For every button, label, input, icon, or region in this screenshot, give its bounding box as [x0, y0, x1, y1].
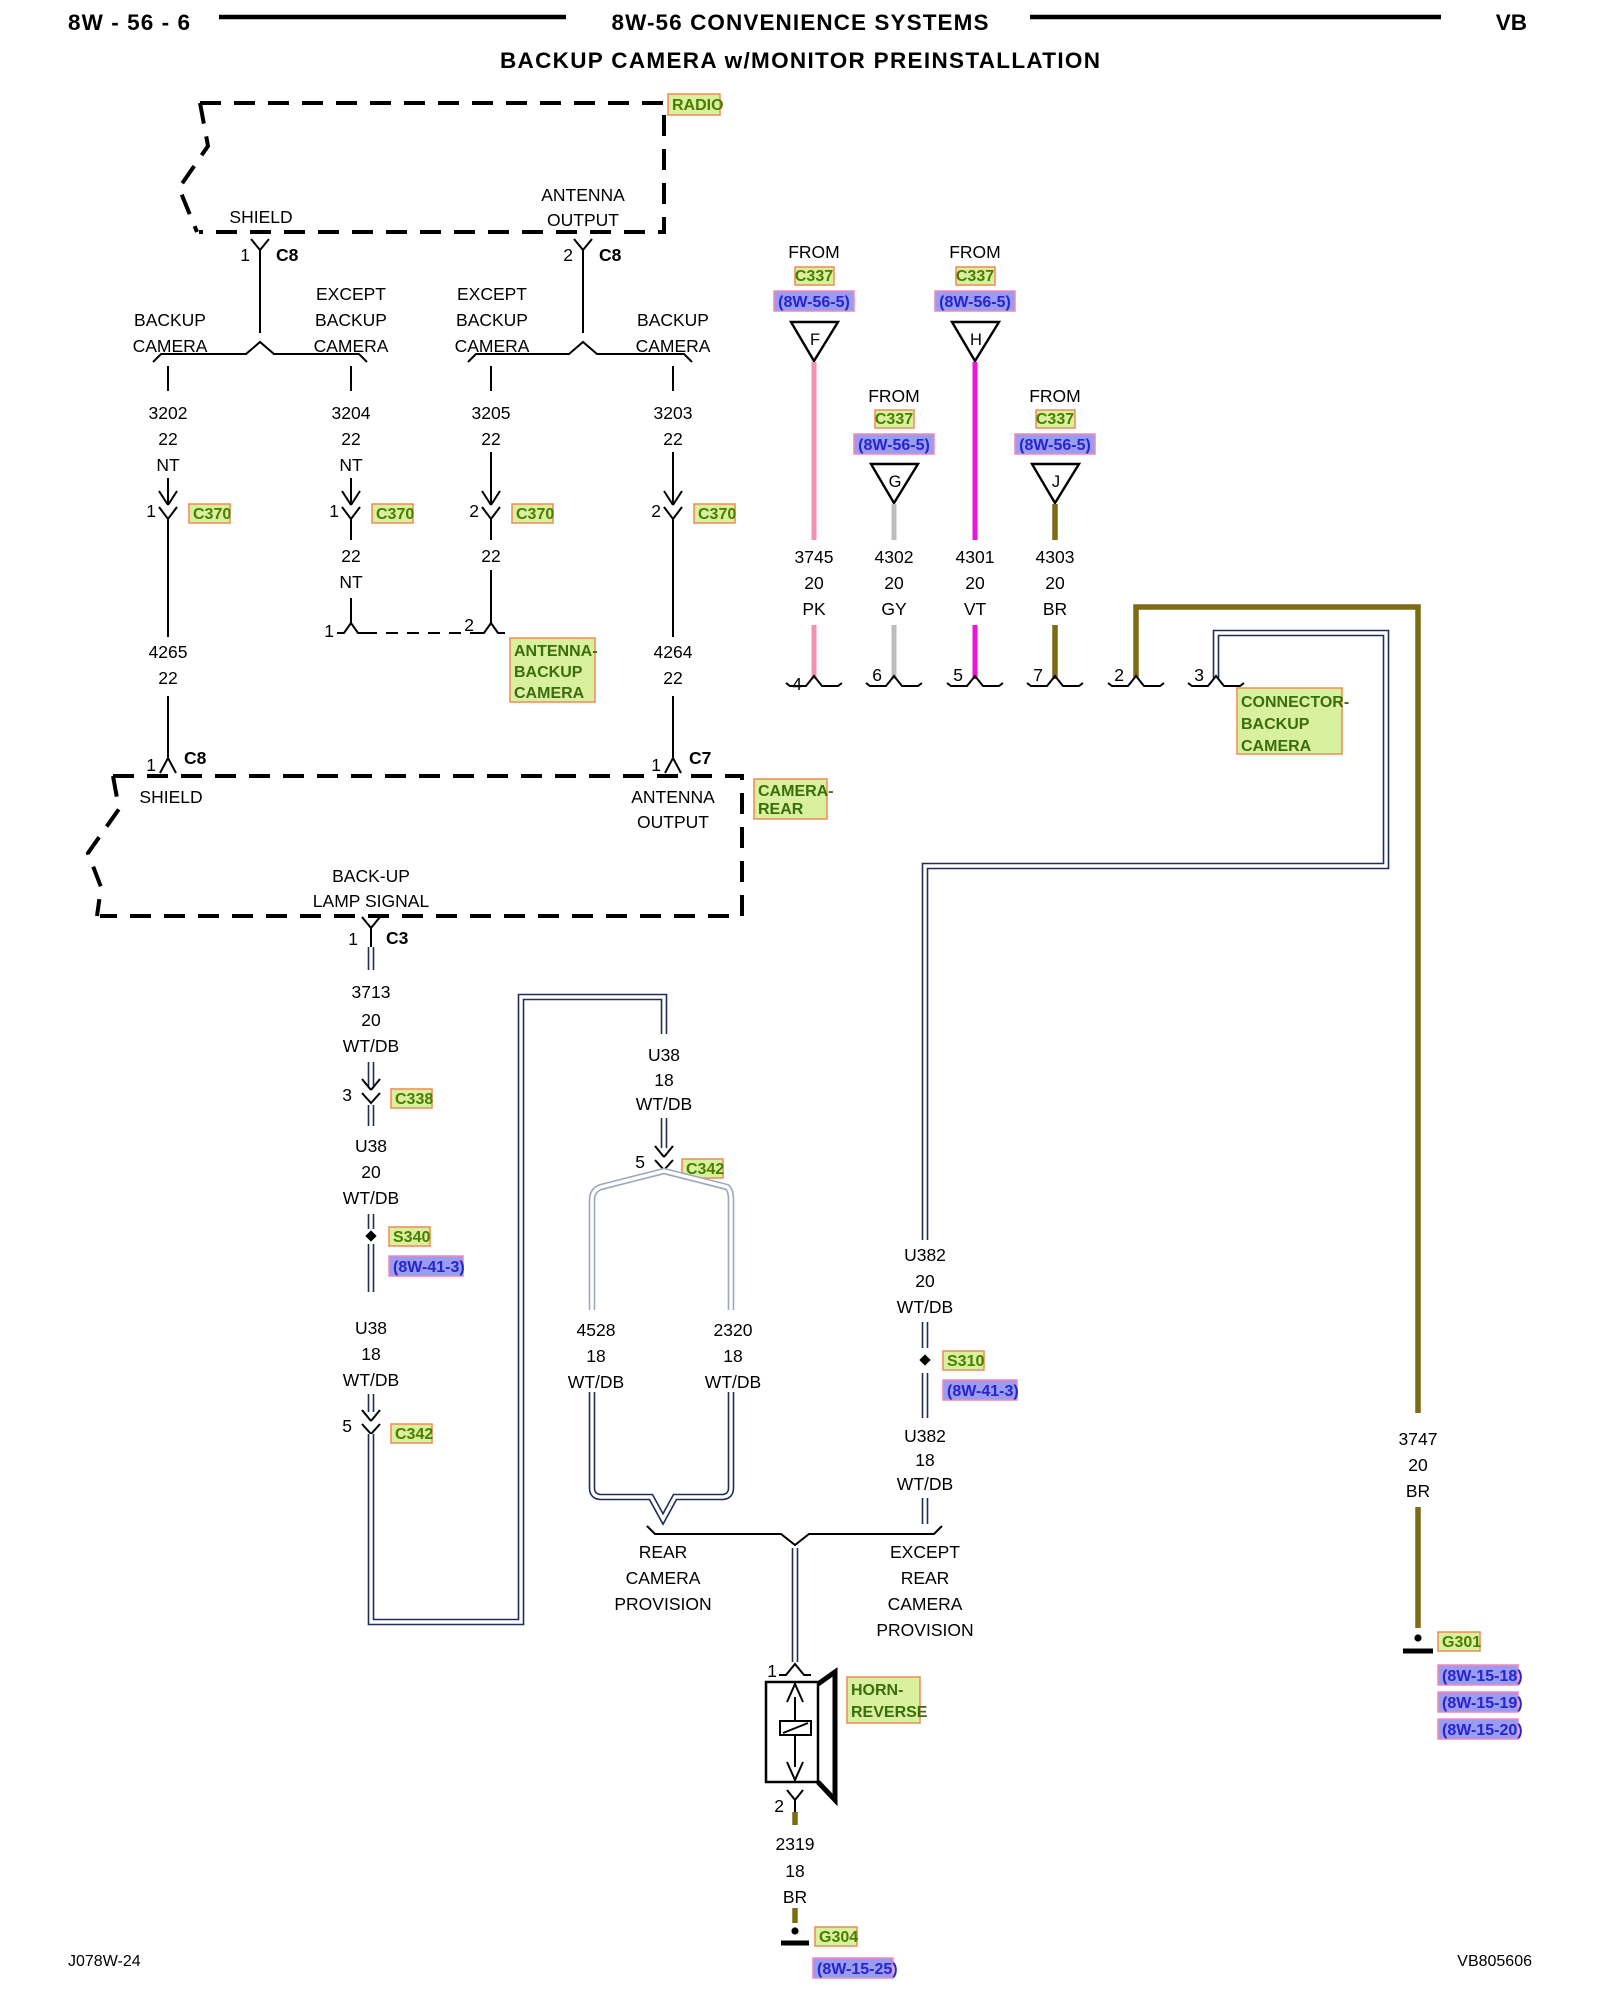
- svg-text:OUTPUT: OUTPUT: [547, 210, 619, 230]
- svg-text:C3: C3: [386, 928, 409, 948]
- wire col 3204 to bump: [350, 598, 352, 623]
- svg-text:G304: G304: [819, 1929, 858, 1946]
- svg-text:WT/DB: WT/DB: [705, 1372, 761, 1392]
- svg-text:FROM: FROM: [788, 242, 840, 262]
- twisted pair into C338: [368, 1062, 375, 1086]
- svg-text:3713: 3713: [352, 982, 391, 1002]
- svg-text:HORN-: HORN-: [851, 1682, 903, 1699]
- splice S310: [919, 1351, 984, 1370]
- svg-text:NT: NT: [156, 455, 180, 475]
- svg-text:BACKUP CAMERA w/MONITOR PREINS: BACKUP CAMERA w/MONITOR PREINSTALLATION: [500, 48, 1100, 73]
- pin 2 C8 radio: [563, 239, 621, 265]
- svg-text:2: 2: [563, 245, 573, 265]
- option brace 2: [468, 342, 692, 362]
- wire col 3202 to camera box: [167, 696, 169, 757]
- connector pin 7: [1027, 665, 1083, 686]
- svg-text:CAMERA-: CAMERA-: [758, 783, 834, 800]
- svg-text:VT: VT: [964, 599, 987, 619]
- svg-text:G301: G301: [1442, 1634, 1481, 1651]
- twisted pair below C338: [368, 1105, 375, 1126]
- svg-text:20: 20: [361, 1010, 381, 1030]
- svg-text:WT/DB: WT/DB: [343, 1036, 399, 1056]
- G301 ref (8W-15-18): [1438, 1665, 1523, 1685]
- svg-text:BR: BR: [783, 1887, 807, 1907]
- svg-text:GY: GY: [881, 599, 907, 619]
- svg-text:18: 18: [915, 1450, 934, 1470]
- pin 1 C7 camera: [651, 748, 711, 775]
- svg-text:2: 2: [651, 501, 661, 521]
- svg-text:4: 4: [792, 674, 802, 694]
- svg-text:OUTPUT: OUTPUT: [637, 812, 709, 832]
- pin 1 C3 camera: [348, 917, 408, 949]
- radio box (dashed): [179, 103, 664, 232]
- svg-text:4264: 4264: [654, 642, 693, 662]
- svg-text:1: 1: [348, 929, 358, 949]
- svg-text:20: 20: [884, 573, 904, 593]
- svg-text:(8W-41-3): (8W-41-3): [947, 1383, 1019, 1400]
- svg-text:REVERSE: REVERSE: [851, 1704, 928, 1721]
- svg-text:U38: U38: [648, 1045, 680, 1065]
- svg-text:CAMERA: CAMERA: [455, 336, 530, 356]
- svg-text:2320: 2320: [714, 1320, 753, 1340]
- pin 1 C8 radio: [240, 239, 298, 265]
- wire 4302 GY upper: [892, 504, 897, 540]
- wire 4303 BR lower: [1052, 625, 1058, 679]
- header rule left: [219, 15, 566, 20]
- wire 4301 VT upper: [973, 362, 978, 540]
- svg-text:C342: C342: [395, 1426, 433, 1443]
- wire 2319 BR lower: [792, 1908, 798, 1923]
- svg-text:C370: C370: [193, 506, 231, 523]
- svg-text:C337: C337: [1036, 411, 1074, 428]
- svg-text:4265: 4265: [149, 642, 188, 662]
- svg-text:1: 1: [146, 755, 156, 775]
- twisted pair U382 above S310: [922, 1322, 929, 1348]
- svg-text:WT/DB: WT/DB: [636, 1094, 692, 1114]
- triangle connector G: [871, 464, 918, 503]
- wire col 3203 below C370: [672, 518, 674, 637]
- svg-text:22: 22: [481, 429, 500, 449]
- horn pin 2: [774, 1790, 803, 1816]
- dashed jumper wire: [365, 632, 477, 634]
- svg-text:6: 6: [872, 665, 882, 685]
- svg-text:2319: 2319: [776, 1834, 815, 1854]
- svg-text:(8W-56-5): (8W-56-5): [1019, 437, 1091, 454]
- connector C342 pin5 (mid): [635, 1146, 724, 1178]
- twisted pair loop to mid column: [371, 997, 664, 1622]
- wire 3745 PK lower: [812, 625, 817, 679]
- svg-text:22: 22: [663, 429, 682, 449]
- wire stem pin1: [259, 262, 261, 333]
- svg-text:3: 3: [1194, 665, 1204, 685]
- svg-text:20: 20: [1408, 1455, 1428, 1475]
- svg-text:CAMERA: CAMERA: [636, 336, 711, 356]
- svg-text:2: 2: [774, 1796, 784, 1816]
- svg-text:22: 22: [158, 668, 177, 688]
- svg-text:22: 22: [341, 546, 360, 566]
- svg-text:20: 20: [915, 1271, 935, 1291]
- svg-text:CONNECTOR-: CONNECTOR-: [1241, 694, 1349, 711]
- svg-text:C8: C8: [276, 245, 299, 265]
- svg-text:(8W-15-20): (8W-15-20): [1442, 1722, 1523, 1739]
- radio label: [668, 94, 724, 115]
- svg-text:4302: 4302: [875, 547, 914, 567]
- svg-text:2: 2: [469, 501, 479, 521]
- svg-text:4303: 4303: [1036, 547, 1075, 567]
- svg-text:22: 22: [663, 668, 682, 688]
- svg-text:3205: 3205: [472, 403, 511, 423]
- twisted pair below S340: [368, 1244, 375, 1292]
- svg-text:CAMERA: CAMERA: [133, 336, 208, 356]
- svg-text:18: 18: [654, 1070, 673, 1090]
- svg-text:C338: C338: [395, 1091, 433, 1108]
- G301 ref (8W-15-19): [1438, 1692, 1523, 1712]
- bump pin 1 (antenna jumper): [337, 623, 365, 633]
- svg-text:U38: U38: [355, 1318, 387, 1338]
- svg-text:22: 22: [158, 429, 177, 449]
- svg-text:20: 20: [965, 573, 985, 593]
- twisted pair split tent: [592, 1171, 731, 1310]
- svg-text:22: 22: [481, 546, 500, 566]
- svg-text:VB805606: VB805606: [1457, 1953, 1532, 1970]
- svg-text:ANTENNA: ANTENNA: [541, 185, 625, 205]
- merge brace: [647, 1526, 942, 1545]
- svg-text:22: 22: [341, 429, 360, 449]
- connector pin 4: [786, 674, 842, 694]
- svg-text:ANTENNA: ANTENNA: [631, 787, 715, 807]
- svg-text:REAR: REAR: [901, 1568, 950, 1588]
- svg-text:U382: U382: [904, 1426, 946, 1446]
- label box HORN-REVERSE: [847, 1677, 928, 1723]
- svg-text:PROVISION: PROVISION: [876, 1620, 973, 1640]
- wire col 3204 below C370: [350, 518, 352, 540]
- svg-text:20: 20: [1045, 573, 1065, 593]
- wire tick 3204: [350, 366, 352, 391]
- wire 4302 GY lower: [892, 625, 897, 679]
- svg-text:EXCEPT: EXCEPT: [457, 284, 527, 304]
- wire tick 3205: [490, 366, 492, 391]
- connector C370 pin1 (col 3202): [146, 478, 231, 523]
- svg-text:C337: C337: [795, 268, 833, 285]
- wire tick 3202: [167, 366, 169, 391]
- svg-text:CAMERA: CAMERA: [626, 1568, 701, 1588]
- svg-text:C337: C337: [956, 268, 994, 285]
- wire col 3203 to camera box: [672, 696, 674, 757]
- svg-text:BACKUP: BACKUP: [1241, 716, 1310, 733]
- label box ANTENNA-BACKUP CAMERA: [510, 638, 598, 702]
- svg-text:NT: NT: [339, 572, 363, 592]
- svg-text:3747: 3747: [1399, 1429, 1438, 1449]
- svg-text:18: 18: [586, 1346, 605, 1366]
- svg-text:RADIO: RADIO: [672, 97, 724, 114]
- svg-text:1: 1: [329, 501, 339, 521]
- svg-text:7: 7: [1033, 665, 1043, 685]
- svg-text:20: 20: [804, 573, 824, 593]
- svg-text:1: 1: [767, 1661, 777, 1681]
- svg-text:S310: S310: [947, 1353, 984, 1370]
- S310 ref (8W-41-3): [943, 1380, 1019, 1400]
- svg-text:REAR: REAR: [639, 1542, 688, 1562]
- wire col 3205 to bump: [490, 570, 492, 623]
- feed J labels FROM C337 (8W-56-5): [1015, 386, 1095, 454]
- triangle connector J: [1032, 464, 1079, 503]
- svg-text:SHIELD: SHIELD: [229, 207, 292, 227]
- svg-text:BACK-UP: BACK-UP: [332, 866, 410, 886]
- svg-text:18: 18: [723, 1346, 742, 1366]
- svg-text:C370: C370: [516, 506, 554, 523]
- svg-text:3: 3: [342, 1085, 352, 1105]
- horn-reverse body: [766, 1672, 835, 1800]
- svg-text:1: 1: [146, 501, 156, 521]
- svg-text:BR: BR: [1406, 1481, 1430, 1501]
- svg-text:C8: C8: [184, 748, 207, 768]
- twisted pair brace to horn: [792, 1548, 799, 1662]
- svg-text:CAMERA: CAMERA: [1241, 738, 1312, 755]
- svg-text:4301: 4301: [956, 547, 995, 567]
- wire 4301 VT lower: [973, 625, 978, 679]
- svg-text:3745: 3745: [795, 547, 834, 567]
- svg-text:G: G: [889, 473, 902, 491]
- connector pin 3: [1188, 665, 1244, 686]
- option brace 1: [153, 342, 367, 362]
- header rule right: [1030, 15, 1441, 20]
- svg-text:CAMERA: CAMERA: [888, 1594, 963, 1614]
- svg-text:8W - 56 - 6: 8W - 56 - 6: [68, 10, 190, 35]
- twisted pair merge V: [592, 1392, 731, 1519]
- svg-text:BR: BR: [1043, 599, 1067, 619]
- svg-text:CAMERA: CAMERA: [314, 336, 389, 356]
- svg-text:(8W-56-5): (8W-56-5): [778, 294, 850, 311]
- wire col 3202 below C370: [167, 518, 169, 637]
- svg-text:U382: U382: [904, 1245, 946, 1265]
- svg-text:WT/DB: WT/DB: [897, 1297, 953, 1317]
- svg-text:C370: C370: [376, 506, 414, 523]
- svg-text:C7: C7: [689, 748, 711, 768]
- connector C370 pin2 (col 3205): [469, 452, 554, 523]
- svg-text:(8W-15-18): (8W-15-18): [1442, 1668, 1523, 1685]
- svg-text:18: 18: [785, 1861, 804, 1881]
- svg-text:1: 1: [240, 245, 250, 265]
- svg-text:4528: 4528: [577, 1320, 616, 1340]
- svg-text:J078W-24: J078W-24: [68, 1953, 141, 1970]
- wire 4303 BR upper: [1052, 504, 1058, 540]
- twisted pair above S340: [368, 1214, 375, 1229]
- connector C342 pin5 (left): [342, 1410, 433, 1443]
- svg-text:EXCEPT: EXCEPT: [316, 284, 386, 304]
- feed F labels FROM C337 (8W-56-5): [774, 242, 854, 311]
- svg-text:BACKUP: BACKUP: [315, 310, 387, 330]
- triangle connector F: [791, 322, 838, 361]
- svg-text:WT/DB: WT/DB: [343, 1188, 399, 1208]
- connector pin 5: [947, 665, 1003, 686]
- svg-text:20: 20: [361, 1162, 381, 1182]
- svg-text:3204: 3204: [332, 403, 371, 423]
- svg-text:VB: VB: [1496, 10, 1527, 35]
- connector C370 pin2 (col 3203): [651, 452, 736, 523]
- svg-text:H: H: [970, 331, 982, 349]
- twisted pair from pin3 to U382: [925, 633, 1386, 1240]
- svg-text:PROVISION: PROVISION: [614, 1594, 711, 1614]
- svg-text:C370: C370: [698, 506, 736, 523]
- svg-text:ANTENNA-: ANTENNA-: [514, 643, 598, 660]
- svg-text:BACKUP: BACKUP: [514, 664, 583, 681]
- connector pin 2: [1108, 665, 1164, 686]
- svg-text:BACKUP: BACKUP: [134, 310, 206, 330]
- svg-text:(8W-15-19): (8W-15-19): [1442, 1695, 1523, 1712]
- twisted pair U382 to brace: [922, 1498, 929, 1524]
- svg-text:S340: S340: [393, 1229, 430, 1246]
- ground G301: [1403, 1632, 1481, 1651]
- svg-text:U38: U38: [355, 1136, 387, 1156]
- twisted pair into C342 mid: [661, 1118, 668, 1148]
- wire 3745 PK upper: [812, 362, 817, 540]
- svg-text:WT/DB: WT/DB: [897, 1474, 953, 1494]
- svg-text:SHIELD: SHIELD: [139, 787, 202, 807]
- svg-text:1: 1: [651, 755, 661, 775]
- svg-text:(8W-15-25): (8W-15-25): [817, 1961, 898, 1978]
- feed H labels FROM C337 (8W-56-5): [935, 242, 1015, 311]
- wire col 3205 below C370: [490, 518, 492, 540]
- svg-text:(8W-56-5): (8W-56-5): [858, 437, 930, 454]
- svg-text:BACKUP: BACKUP: [637, 310, 709, 330]
- svg-text:NT: NT: [339, 455, 363, 475]
- label box CAMERA-REAR: [754, 779, 834, 819]
- connector pin 6: [866, 665, 922, 686]
- svg-text:C8: C8: [599, 245, 622, 265]
- svg-text:3203: 3203: [654, 403, 693, 423]
- svg-text:J: J: [1052, 473, 1060, 491]
- connector C370 pin1 (col 3204): [329, 478, 414, 523]
- wire stem pin2: [582, 262, 584, 333]
- wire tick 3203: [672, 366, 674, 391]
- G301 ref (8W-15-20): [1438, 1719, 1523, 1739]
- wire 2319 BR upper: [792, 1812, 798, 1825]
- svg-text:8W-56 CONVENIENCE SYSTEMS: 8W-56 CONVENIENCE SYSTEMS: [612, 10, 989, 35]
- svg-text:(8W-56-5): (8W-56-5): [939, 294, 1011, 311]
- camera-rear box (dashed): [88, 776, 742, 916]
- S340 ref (8W-41-3): [389, 1256, 465, 1276]
- feed G labels FROM C337 (8W-56-5): [854, 386, 934, 454]
- svg-text:F: F: [810, 331, 820, 349]
- label box CONNECTOR-BACKUP CAMERA: [1237, 688, 1349, 755]
- svg-text:2: 2: [1114, 665, 1124, 685]
- svg-text:BACKUP: BACKUP: [456, 310, 528, 330]
- svg-text:FROM: FROM: [949, 242, 1001, 262]
- pin 1 C8 camera: [146, 748, 206, 775]
- ground G304: [781, 1927, 858, 1946]
- splice S340: [365, 1227, 430, 1246]
- svg-text:CAMERA: CAMERA: [514, 685, 585, 702]
- svg-text:5: 5: [635, 1152, 645, 1172]
- twisted pair U382 below S310: [922, 1373, 929, 1418]
- svg-text:WT/DB: WT/DB: [343, 1370, 399, 1390]
- svg-text:5: 5: [953, 665, 963, 685]
- svg-text:LAMP SIGNAL: LAMP SIGNAL: [313, 891, 430, 911]
- svg-text:WT/DB: WT/DB: [568, 1372, 624, 1392]
- wire BR to G301 (lower): [1415, 1507, 1421, 1628]
- wire BR from pin2 to G301 (upper): [1136, 607, 1418, 1413]
- svg-text:(8W-41-3): (8W-41-3): [393, 1259, 465, 1276]
- svg-text:1: 1: [324, 621, 334, 641]
- svg-text:3202: 3202: [149, 403, 188, 423]
- svg-text:C337: C337: [875, 411, 913, 428]
- twisted pair 3713 upper: [368, 947, 375, 970]
- svg-text:18: 18: [361, 1344, 380, 1364]
- svg-text:REAR: REAR: [758, 801, 804, 818]
- svg-text:FROM: FROM: [1029, 386, 1081, 406]
- bump pin 2 (antenna jumper): [477, 623, 505, 633]
- svg-text:PK: PK: [802, 599, 826, 619]
- horn pin 1: [767, 1661, 811, 1681]
- triangle connector H: [952, 322, 999, 361]
- svg-text:FROM: FROM: [868, 386, 920, 406]
- twisted pair into C342 left: [368, 1394, 375, 1412]
- svg-text:EXCEPT: EXCEPT: [890, 1542, 960, 1562]
- connector C338 pin3: [342, 1079, 433, 1108]
- G304 ref (8W-15-25): [813, 1958, 898, 1978]
- svg-text:5: 5: [342, 1416, 352, 1436]
